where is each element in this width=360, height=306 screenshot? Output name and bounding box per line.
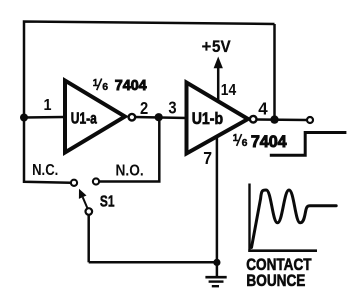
- wire top feedback: [24, 22, 275, 119]
- wire switch pole down: [87, 215, 90, 262]
- svg-text:6: 6: [242, 137, 248, 149]
- +5V supply label: [202, 38, 231, 56]
- svg-text:N.C.: N.C.: [32, 162, 58, 179]
- svg-text:U1-a: U1-a: [71, 110, 97, 127]
- contact bounce waveform: [252, 190, 337, 248]
- wire pin 7 down: [216, 136, 219, 263]
- U1-b fraction 1/6: [233, 133, 248, 149]
- output terminal circle: [307, 117, 313, 123]
- wire U1-a output to U1-b input: [134, 117, 187, 118]
- ground symbol: [205, 262, 226, 286]
- output step waveform symbol: [270, 133, 347, 156]
- svg-text:U1-b: U1-b: [192, 110, 223, 128]
- op-amp U1-a inverter triangle: [65, 81, 125, 153]
- svg-text:6: 6: [102, 81, 108, 93]
- node output junction: [270, 115, 278, 123]
- svg-text:2: 2: [140, 98, 148, 118]
- svg-text:+: +: [202, 38, 212, 56]
- svg-text:S1: S1: [100, 194, 115, 211]
- wire U1-b output: [257, 118, 307, 121]
- node input junction: [20, 114, 28, 122]
- wire ground bus: [89, 261, 217, 264]
- switch S1 N.O. contact: [93, 178, 99, 184]
- wire node3 down to N.O.: [99, 118, 159, 182]
- svg-text:7404: 7404: [251, 133, 287, 151]
- svg-text:7404: 7404: [115, 77, 147, 94]
- U1-a fraction 1/6: [93, 78, 109, 93]
- wire input to U1-a pin 1: [24, 116, 64, 119]
- node ground junction: [213, 259, 220, 266]
- svg-text:7: 7: [203, 148, 212, 168]
- switch S1 arm with arrowhead: [79, 189, 88, 209]
- switch S1 pole contact: [86, 208, 93, 215]
- svg-text:3: 3: [168, 97, 176, 117]
- svg-text:BOUNCE: BOUNCE: [246, 271, 305, 290]
- wire left down to N.C.: [24, 117, 71, 183]
- op-amp U1-b output bubble: [250, 116, 257, 123]
- op-amp U1-a output bubble: [129, 114, 136, 121]
- svg-text:14: 14: [221, 82, 236, 99]
- svg-text:1: 1: [44, 97, 52, 114]
- op-amp U1-b inverter triangle: [187, 83, 249, 154]
- svg-text:4: 4: [258, 98, 268, 118]
- wire feedback vertical right: [273, 24, 276, 120]
- contact bounce graph axes: [248, 184, 317, 252]
- svg-text:5V: 5V: [212, 38, 231, 56]
- +5V supply arrow: [217, 66, 220, 101]
- svg-text:N.O.: N.O.: [116, 163, 144, 180]
- node 3 junction: [155, 113, 163, 121]
- switch S1 N.C. contact: [71, 180, 77, 186]
